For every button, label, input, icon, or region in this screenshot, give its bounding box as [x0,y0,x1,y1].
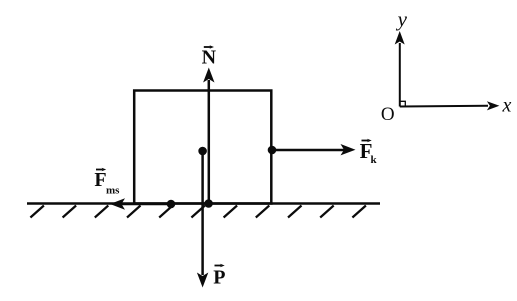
label Fk [360,139,378,166]
ground line [27,202,380,205]
svg-text:ms: ms [106,185,120,197]
svg-text:O: O [381,104,395,125]
x axis [400,101,500,110]
force Fms arrow [110,198,171,209]
ground hatching [30,206,366,218]
svg-text:x: x [502,95,512,117]
label Fms [94,168,120,197]
svg-text:N: N [202,47,217,69]
label N [202,45,217,68]
force N arrow [203,68,214,204]
application point dot at ground contact [204,199,213,208]
label y axis [396,7,408,31]
application point dot at block center [198,147,207,156]
label x axis [502,95,512,117]
right angle marker at origin [400,101,406,106]
svg-text:y: y [396,7,408,31]
application point dot on ground left [167,200,176,209]
label O (origin) [381,104,395,125]
application point dot on right side of block [268,146,277,155]
svg-text:F: F [94,169,106,191]
label P [213,264,225,289]
force Fk arrow [272,144,356,155]
svg-text:P: P [213,267,225,289]
svg-text:k: k [371,154,378,166]
y axis [395,31,405,107]
force P arrow [197,151,208,288]
block [134,91,271,204]
